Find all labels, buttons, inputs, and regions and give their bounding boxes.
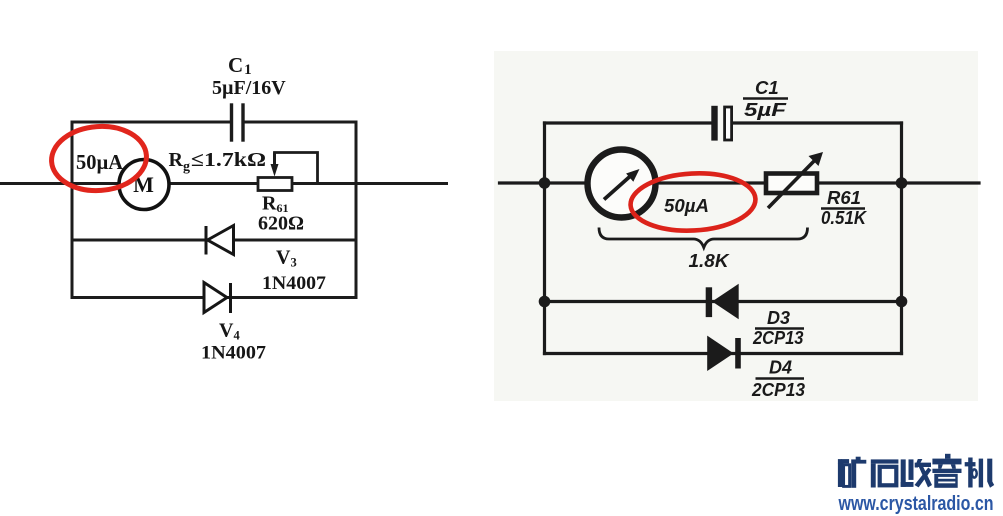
wire left vertical xyxy=(543,123,546,354)
node dot D3 right xyxy=(896,296,908,308)
resistor R61 body xyxy=(258,178,292,191)
label C1 underline xyxy=(743,97,788,99)
capacitor C1 right plate xyxy=(725,107,732,140)
svg-text:Rg: Rg xyxy=(169,149,190,175)
wire D4 row xyxy=(545,352,902,355)
wire top left segment xyxy=(72,121,232,124)
diode V3 xyxy=(206,226,234,255)
svg-text:D4: D4 xyxy=(769,358,792,378)
label D4 underline xyxy=(756,377,805,379)
svg-text:620Ω: 620Ω xyxy=(258,213,304,235)
svg-text:C1: C1 xyxy=(755,77,779,98)
wire V4 row (bottom) xyxy=(72,296,356,299)
svg-text:www.crystalradio.cn: www.crystalradio.cn xyxy=(838,493,994,515)
wire top left segment xyxy=(545,121,711,124)
watermark char shi xyxy=(871,459,899,487)
svg-text:1N4007: 1N4007 xyxy=(262,273,327,294)
svg-text:5µF: 5µF xyxy=(744,99,787,120)
label D3 underline xyxy=(755,327,804,329)
svg-text:2CP13: 2CP13 xyxy=(751,380,805,400)
meter circle xyxy=(588,150,656,218)
wire D3 row xyxy=(545,300,902,303)
wiper of R61 xyxy=(275,153,318,184)
watermark char kuang xyxy=(838,457,866,488)
node dot main right xyxy=(896,177,908,189)
annotation red ellipse left xyxy=(49,123,148,193)
svg-text:V3: V3 xyxy=(276,247,297,270)
svg-text:50µA: 50µA xyxy=(664,195,709,216)
svg-text:≤1.7kΩ: ≤1.7kΩ xyxy=(191,149,266,171)
capacitor C1 plates xyxy=(230,105,233,140)
annotation red ellipse right xyxy=(629,170,757,233)
svg-text:V4: V4 xyxy=(219,320,240,343)
watermark char shou xyxy=(901,459,932,487)
diode D3 (filled, pointing left) xyxy=(712,284,739,320)
capacitor C1 left plate xyxy=(711,106,717,141)
rheostat R61 body xyxy=(766,174,817,194)
watermark char yin xyxy=(932,454,961,488)
diode D4 (filled, pointing right) xyxy=(707,336,733,371)
meter needle arrow xyxy=(604,176,631,200)
diode V4 xyxy=(204,283,231,314)
svg-text:2CP13: 2CP13 xyxy=(752,328,803,348)
svg-text:50µA: 50µA xyxy=(76,150,124,174)
wire right vertical xyxy=(355,122,358,298)
svg-text:D3: D3 xyxy=(767,308,790,328)
svg-text:1.8K: 1.8K xyxy=(689,251,731,271)
wire main horizontal left xyxy=(0,182,447,185)
meter M1 circle xyxy=(119,160,169,210)
wire main horizontal right xyxy=(500,181,980,184)
node dot main left xyxy=(539,177,551,189)
rheostat arrow xyxy=(768,158,817,208)
svg-text:C1: C1 xyxy=(228,53,252,78)
label R61 underline xyxy=(821,207,865,209)
wire top right segment xyxy=(734,121,902,124)
wire top right segment xyxy=(243,121,356,124)
svg-text:0.51K: 0.51K xyxy=(821,207,867,228)
wire V3 row xyxy=(72,239,356,242)
wire right vertical xyxy=(900,123,903,354)
svg-text:1N4007: 1N4007 xyxy=(201,343,267,364)
svg-text:5µF/16V: 5µF/16V xyxy=(212,77,286,99)
brace 1.8K xyxy=(599,228,808,248)
svg-text:R61: R61 xyxy=(827,187,861,208)
node dot D3 left xyxy=(539,296,551,308)
watermark char ji xyxy=(965,458,995,488)
wire left vertical xyxy=(71,122,74,298)
wiper arrow head xyxy=(271,164,279,177)
right scan background xyxy=(494,51,978,401)
